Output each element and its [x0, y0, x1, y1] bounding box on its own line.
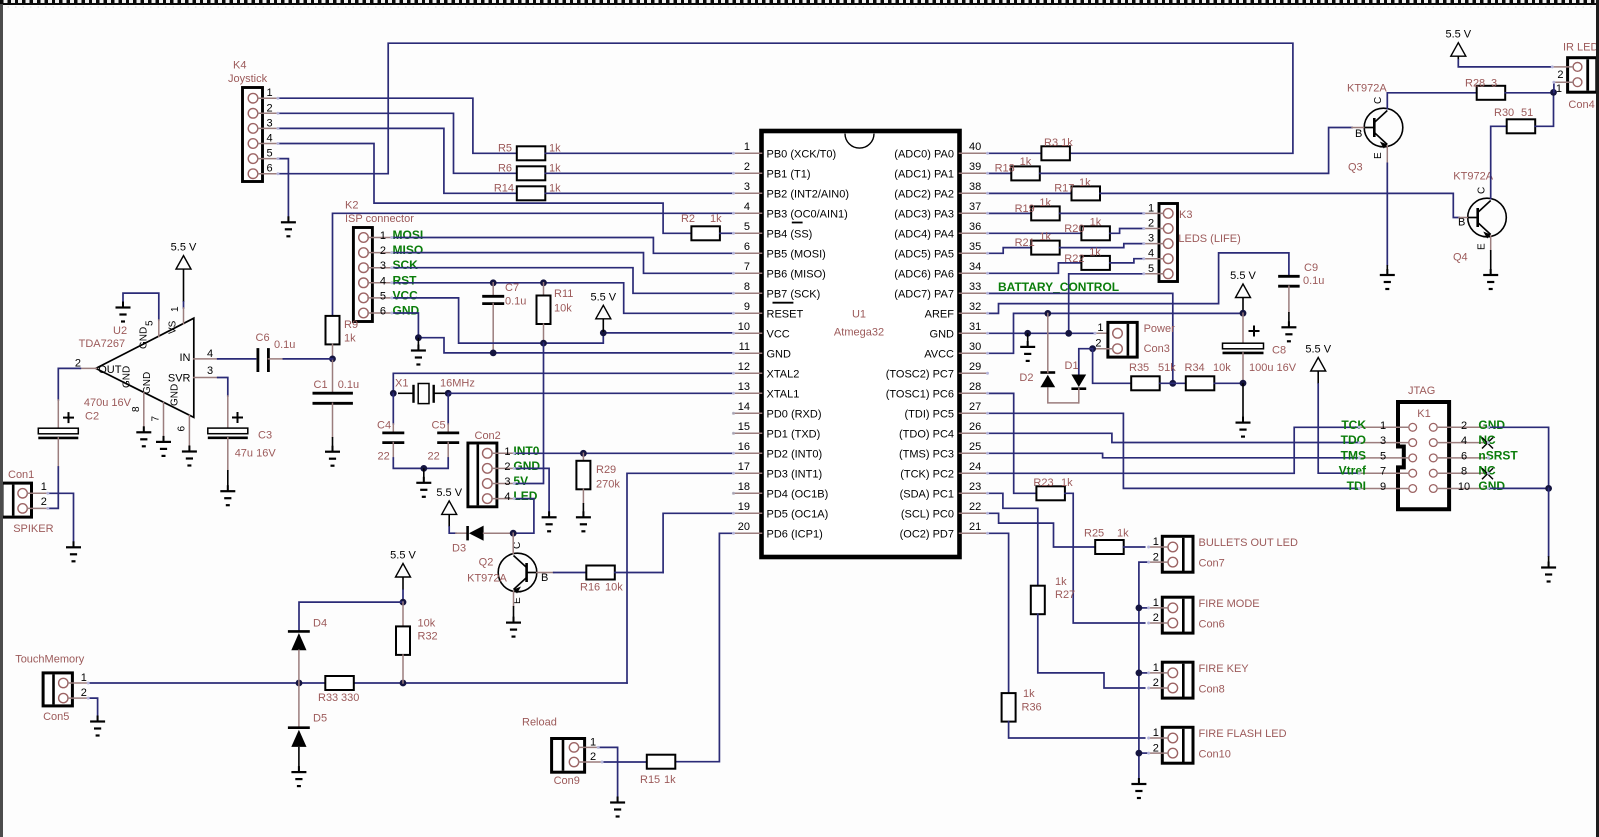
connector Con8 FIRE KEY — [1162, 662, 1193, 698]
junction Con8.1 — [1136, 670, 1143, 677]
wire R6 to U1 pin2 — [545, 172, 733, 174]
svg-text:(TOSC1) PC6: (TOSC1) PC6 — [886, 388, 954, 400]
svg-text:R20: R20 — [1064, 223, 1084, 235]
U1 pin 29 (TOSC2) PC7 — [960, 372, 988, 374]
svg-text:FIRE KEY: FIRE KEY — [1199, 663, 1250, 675]
svg-text:Con3: Con3 — [1144, 343, 1170, 355]
capacitor C8 100u 16V polarized — [1242, 313, 1244, 343]
resistor R14 — [517, 186, 546, 200]
transistor Q3 KT972A — [1364, 108, 1403, 147]
svg-text:1: 1 — [267, 87, 273, 99]
svg-text:1k: 1k — [1079, 177, 1091, 189]
svg-text:1: 1 — [380, 230, 386, 242]
svg-text:C2: C2 — [85, 411, 99, 423]
U1 pin 10 VCC — [734, 332, 762, 334]
svg-text:1: 1 — [1153, 662, 1159, 674]
svg-text:R19: R19 — [1015, 203, 1035, 215]
resistor R27 1k — [1031, 586, 1045, 615]
U1 pin 33 (ADC7) PA7 — [960, 292, 988, 294]
power 5.5V at D3 — [442, 501, 457, 515]
svg-text:29: 29 — [969, 361, 981, 373]
net endpoint ticks — [46, 65, 1555, 763]
svg-text:AREF: AREF — [925, 308, 955, 320]
svg-text:5.5 V: 5.5 V — [171, 242, 197, 254]
svg-text:Con2: Con2 — [475, 430, 501, 442]
svg-text:10k: 10k — [554, 303, 572, 315]
U1 pin 30 AVCC — [960, 352, 988, 354]
svg-text:(ADC7) PA7: (ADC7) PA7 — [894, 288, 954, 300]
svg-text:R29: R29 — [596, 464, 616, 476]
capacitor C4 22 — [382, 431, 404, 434]
svg-text:PD5 (OC1A): PD5 (OC1A) — [767, 508, 829, 520]
diode D4 — [288, 630, 310, 633]
svg-text:PD6 (ICP1): PD6 (ICP1) — [767, 528, 823, 540]
svg-text:3: 3 — [744, 181, 750, 193]
svg-text:12: 12 — [738, 361, 750, 373]
junction R29 top — [580, 450, 587, 457]
U1 pin 36 (ADC4) PA4 — [960, 232, 988, 234]
svg-text:RESET: RESET — [767, 308, 804, 320]
U1 pin 4 PB3 (OC0/AIN1) — [734, 212, 762, 214]
connector Con10 FIRE FLASH LED — [1162, 727, 1193, 763]
svg-text:1: 1 — [504, 446, 510, 458]
wire Con1.1 to ground — [48, 493, 74, 546]
resistor R30 51 — [1507, 119, 1536, 133]
resistor R28 3 — [1477, 86, 1506, 100]
svg-text:K3: K3 — [1179, 209, 1192, 221]
svg-text:9: 9 — [1380, 481, 1386, 493]
svg-text:AVCC: AVCC — [924, 348, 954, 360]
wire PC1 net pin23 to R27 — [988, 493, 1038, 585]
svg-text:7: 7 — [151, 416, 162, 422]
wire R2 to U1 pin5 — [720, 232, 734, 234]
svg-text:R32: R32 — [418, 631, 438, 643]
svg-text:nSRST: nSRST — [1478, 448, 1518, 462]
svg-text:1: 1 — [1380, 420, 1386, 432]
svg-text:1: 1 — [1153, 597, 1159, 609]
svg-text:8: 8 — [744, 281, 750, 293]
svg-text:R17: R17 — [1054, 183, 1074, 195]
svg-text:GND: GND — [122, 366, 133, 388]
svg-text:30: 30 — [969, 341, 981, 353]
svg-text:GND: GND — [1478, 479, 1505, 493]
svg-text:GND: GND — [767, 348, 792, 360]
wire AVCC net pin30 to 5.5V/C8 — [988, 313, 1244, 353]
svg-text:3: 3 — [207, 365, 213, 377]
svg-text:C7: C7 — [505, 282, 519, 294]
power 5.5V at Vtref — [1311, 358, 1326, 372]
svg-text:14: 14 — [738, 401, 750, 413]
wire TouchMemory net — [88, 682, 299, 684]
svg-text:1k: 1k — [1061, 477, 1073, 489]
wire Q4 collector to R30 — [1491, 126, 1507, 198]
wire K4.6 top net to R3 right — [278, 43, 1293, 174]
wire PA1 to R18 — [988, 172, 1012, 174]
svg-text:(ADC1) PA1: (ADC1) PA1 — [894, 168, 954, 180]
svg-text:2: 2 — [380, 245, 386, 257]
wire X1 right to C5 — [447, 393, 449, 424]
wire TCK net pin24 to K1 — [988, 427, 1360, 473]
junction gnd stub — [1024, 330, 1031, 337]
wire Con2.2 GND to ground — [514, 468, 549, 516]
crystal X1 16MHz — [398, 392, 414, 394]
resistor R19 — [1031, 206, 1060, 220]
svg-text:470u 16V: 470u 16V — [84, 397, 132, 409]
wire R18 to Q3 base — [1040, 128, 1352, 174]
svg-text:Con7: Con7 — [1199, 558, 1225, 570]
wire Q4 base — [1459, 217, 1468, 219]
U1 pin 12 XTAL2 — [734, 372, 762, 374]
wire Q3 emitter to ground — [1386, 146, 1388, 163]
svg-text:Con6: Con6 — [1199, 619, 1225, 631]
resistor R21 — [1031, 241, 1060, 255]
junction R11/VCC — [540, 340, 547, 347]
svg-text:25: 25 — [969, 441, 981, 453]
ground at K4.5 — [281, 216, 296, 236]
junction R11 top on RST — [540, 279, 547, 286]
svg-text:40: 40 — [969, 141, 981, 153]
svg-text:FIRE MODE: FIRE MODE — [1199, 598, 1260, 610]
U1 pin 3 PB2 (INT2/AIN0) — [734, 192, 762, 194]
svg-text:10k: 10k — [418, 618, 436, 630]
capacitor C6 — [256, 348, 259, 372]
svg-text:8: 8 — [131, 406, 142, 412]
overline RESET — [773, 302, 794, 304]
svg-text:5.5 V: 5.5 V — [590, 291, 616, 303]
svg-text:ISP connector: ISP connector — [345, 213, 414, 225]
svg-text:22: 22 — [378, 451, 390, 463]
svg-text:D3: D3 — [452, 543, 466, 555]
svg-text:(TDI) PC5: (TDI) PC5 — [905, 408, 955, 420]
ground at C1 — [332, 437, 334, 451]
U1 pin 9 RESET — [734, 312, 762, 314]
svg-text:R9: R9 — [344, 319, 358, 331]
wire R5 to U1 pin1 — [545, 152, 733, 154]
svg-text:10: 10 — [738, 321, 750, 333]
junction 5.5V/R32/D4 — [400, 599, 407, 606]
svg-text:TDO: TDO — [1341, 433, 1366, 447]
svg-text:(TOSC2) PC7: (TOSC2) PC7 — [886, 368, 954, 380]
svg-text:IN: IN — [180, 352, 191, 364]
svg-text:GND: GND — [170, 384, 181, 406]
U1 pin 5 PB4 (SS) — [734, 232, 762, 234]
wire R28 to Con4.1 — [1505, 92, 1553, 94]
wire D1 to D2 — [1078, 389, 1080, 403]
svg-text:Con9: Con9 — [554, 775, 580, 787]
svg-text:D1: D1 — [1065, 360, 1079, 372]
svg-text:XTAL2: XTAL2 — [767, 368, 800, 380]
junction Con6.1 — [1136, 605, 1143, 612]
junction R32 node — [400, 680, 407, 687]
wire Con5.2 to ground — [88, 698, 97, 719]
wire PD5 net U1 pin19 — [663, 513, 733, 572]
junction K2 GND — [415, 334, 422, 341]
wire Con3.2 to D1 — [1079, 349, 1093, 375]
svg-text:2: 2 — [1557, 69, 1563, 81]
svg-text:(ADC3) PA3: (ADC3) PA3 — [894, 208, 954, 220]
svg-text:4: 4 — [1148, 248, 1154, 260]
wire R22 to K3.4 — [1110, 259, 1144, 263]
svg-text:C1: C1 — [314, 379, 328, 391]
svg-text:5: 5 — [267, 148, 273, 160]
svg-text:TDA7267: TDA7267 — [79, 338, 125, 350]
wire R27 to Con8.2 — [1038, 614, 1145, 688]
junction D2 top — [1044, 310, 1051, 317]
junction R35/R34/BATTARY — [1169, 380, 1176, 387]
svg-text:PB0 (XCK/T0): PB0 (XCK/T0) — [767, 148, 837, 160]
wire Con9.2 to R15 — [602, 761, 647, 763]
svg-text:C: C — [1373, 97, 1384, 104]
svg-text:E: E — [1373, 152, 1384, 159]
svg-text:5.5 V: 5.5 V — [436, 487, 462, 499]
wire INT0 net to U1 pin16 — [514, 452, 733, 454]
U1 pin 11 GND — [734, 352, 762, 354]
U1 pin 22 (SCL) PC0 — [960, 512, 988, 514]
svg-text:16MHz: 16MHz — [440, 378, 475, 390]
junction Q2 collector node — [510, 530, 517, 537]
op-amp U1 Atmega32 IC body — [762, 131, 960, 557]
wire R30 to Con4.1 node — [1535, 92, 1553, 126]
svg-text:22: 22 — [428, 451, 440, 463]
wire R34 to C8 bottom — [1214, 382, 1243, 384]
svg-text:INT0: INT0 — [513, 444, 539, 458]
svg-text:3: 3 — [1380, 435, 1386, 447]
junction 5.5V/C8/AVCC — [1240, 310, 1247, 317]
svg-text:(SCL) PC0: (SCL) PC0 — [901, 508, 954, 520]
resistor R20 — [1081, 226, 1110, 240]
wire TMS net pin25 to K1 — [988, 453, 1360, 458]
wire R25 to Con7.1 — [1124, 546, 1145, 548]
svg-text:15: 15 — [738, 421, 750, 433]
svg-text:KT972A: KT972A — [1347, 83, 1387, 95]
wire PC6 net pin28 to R23 — [988, 393, 1037, 493]
svg-text:2: 2 — [1153, 742, 1159, 754]
U1 pin 18 PD4 (OC1B) — [734, 492, 762, 494]
svg-text:PD0 (RXD): PD0 (RXD) — [767, 408, 822, 420]
power 5.5V at C8 — [1236, 284, 1251, 298]
svg-text:2: 2 — [1153, 677, 1159, 689]
wire R19 to K3.1 — [1060, 212, 1144, 214]
svg-text:1k: 1k — [1090, 217, 1102, 229]
wire PD6 net U1 pin20 to R15 — [676, 533, 734, 761]
svg-text:Q2: Q2 — [479, 557, 494, 569]
wire R17 to Q4 base — [1100, 193, 1459, 217]
wire R16 to PD5 net — [615, 572, 663, 574]
svg-text:BULLETS OUT LED: BULLETS OUT LED — [1199, 537, 1298, 549]
svg-text:C6: C6 — [256, 332, 270, 344]
svg-text:Con1: Con1 — [8, 469, 34, 481]
ground at C3 — [227, 470, 229, 490]
svg-text:SCK: SCK — [393, 258, 419, 272]
svg-text:R22: R22 — [1064, 253, 1084, 265]
connector K3 LEDS (LIFE) — [1159, 204, 1178, 282]
svg-text:JTAG: JTAG — [1408, 385, 1435, 397]
svg-text:(SDA) PC1: (SDA) PC1 — [900, 488, 954, 500]
svg-text:Con4: Con4 — [1568, 99, 1594, 111]
svg-text:31: 31 — [969, 321, 981, 333]
U1 pin 25 (TMS) PC3 — [960, 452, 988, 454]
wire C4/C5 to ground — [393, 458, 448, 468]
U2 pin7 GND stub and ground — [163, 403, 165, 441]
svg-text:R33: R33 — [318, 692, 338, 704]
svg-text:PB7 (SCK): PB7 (SCK) — [767, 288, 821, 300]
U1 pin 40 (ADC0) PA0 — [960, 152, 988, 154]
U1 pin 2 PB1 (T1) — [734, 172, 762, 174]
svg-text:2: 2 — [1095, 338, 1101, 350]
svg-text:(TDO) PC4: (TDO) PC4 — [899, 428, 954, 440]
svg-text:Q4: Q4 — [1453, 252, 1468, 264]
svg-text:(ADC2) PA2: (ADC2) PA2 — [894, 188, 954, 200]
resistor R35 51k — [1131, 376, 1160, 390]
svg-text:X1: X1 — [395, 378, 408, 390]
wire K4.3 to R14 — [278, 128, 517, 193]
svg-text:4: 4 — [1461, 435, 1467, 447]
wire Q3 base — [1352, 127, 1364, 129]
svg-text:35: 35 — [969, 241, 981, 253]
wire PA4 to R20 — [988, 232, 1082, 234]
svg-text:26: 26 — [969, 421, 981, 433]
wire Vtref — [1318, 384, 1359, 473]
svg-text:34: 34 — [969, 261, 981, 273]
svg-text:0.1u: 0.1u — [505, 296, 526, 308]
wire common GND rail of Con7/6/8/10 — [1139, 562, 1149, 783]
svg-text:4: 4 — [267, 133, 273, 145]
svg-text:23: 23 — [969, 481, 981, 493]
resistor R34 10k — [1186, 376, 1215, 390]
svg-text:0.1u: 0.1u — [1303, 275, 1324, 287]
wire PA5 to R21 — [988, 248, 1032, 254]
svg-text:1: 1 — [170, 306, 181, 312]
resistor R11 — [543, 283, 545, 296]
svg-text:(OC2) PD7: (OC2) PD7 — [900, 528, 954, 540]
U1 pin 14 PD0 (RXD) — [734, 412, 762, 414]
svg-text:PB3 (OC0/AIN1): PB3 (OC0/AIN1) — [767, 208, 848, 220]
NC cross pin8 — [1482, 468, 1493, 479]
svg-text:OUT: OUT — [98, 364, 122, 376]
svg-text:10k: 10k — [1213, 362, 1231, 374]
svg-text:R34: R34 — [1185, 362, 1205, 374]
U1 pin 6 PB5 (MOSI) — [734, 252, 762, 254]
svg-text:6: 6 — [380, 306, 386, 318]
svg-text:FIRE FLASH LED: FIRE FLASH LED — [1199, 728, 1287, 740]
wire R14 to U1 pin3 — [545, 192, 733, 194]
svg-text:R18: R18 — [995, 163, 1015, 175]
svg-text:17: 17 — [738, 461, 750, 473]
svg-text:5: 5 — [1380, 450, 1386, 462]
svg-text:MOSI: MOSI — [393, 228, 424, 242]
junction C7 top on RST — [490, 279, 497, 286]
svg-text:1k: 1k — [1117, 528, 1129, 540]
svg-text:TCK: TCK — [1341, 418, 1366, 432]
U1 pin 27 (TDI) PC5 — [960, 412, 988, 414]
svg-text:10k: 10k — [605, 582, 623, 594]
svg-text:R35: R35 — [1129, 362, 1149, 374]
svg-text:D4: D4 — [313, 618, 327, 630]
resistor R33 330 — [325, 676, 354, 690]
wire C6 to amp IN node — [268, 358, 283, 360]
svg-text:38: 38 — [969, 181, 981, 193]
svg-text:PD3 (INT1): PD3 (INT1) — [767, 468, 823, 480]
U2 pin5 GND wire and ground — [123, 293, 159, 320]
svg-text:R15: R15 — [640, 774, 660, 786]
wire RST net to U1 pin9 RESET — [392, 283, 734, 314]
U1 pin 38 (ADC2) PA2 — [960, 192, 988, 194]
svg-text:Vtref: Vtref — [1339, 464, 1367, 478]
svg-text:(TMS) PC3: (TMS) PC3 — [899, 448, 954, 460]
junction 5.5V/VCC — [600, 330, 607, 337]
connector Con6 FIRE MODE — [1162, 597, 1193, 633]
junction X1 left — [390, 390, 397, 397]
svg-text:5.5 V: 5.5 V — [390, 550, 416, 562]
svg-text:XTAL1: XTAL1 — [767, 388, 800, 400]
resistor R6 — [517, 166, 546, 180]
connector Con7 BULLETS OUT LED — [1162, 536, 1193, 572]
svg-text:GND: GND — [513, 459, 540, 473]
svg-text:R11: R11 — [554, 288, 573, 300]
U1 pin 26 (TDO) PC4 — [960, 432, 988, 434]
svg-text:10: 10 — [1458, 481, 1470, 493]
svg-text:1: 1 — [1148, 202, 1154, 214]
svg-text:32: 32 — [969, 301, 981, 313]
wire PD3/INT1 net U1 pin17 to TouchMemory — [627, 473, 734, 683]
svg-text:Reload: Reload — [522, 717, 557, 729]
wire R11 bottom to VCC rail — [543, 324, 545, 343]
svg-text:B: B — [541, 572, 548, 584]
overline SS on PB4 — [792, 222, 803, 224]
svg-text:PB1 (T1): PB1 (T1) — [767, 168, 811, 180]
U2 pin8 GND stub and ground — [143, 393, 145, 432]
wire D4 top rail — [299, 602, 403, 631]
svg-text:R3 1k: R3 1k — [1044, 137, 1073, 149]
svg-text:LEDS (LIFE): LEDS (LIFE) — [1178, 233, 1240, 245]
junction Con4.1 node — [1550, 89, 1557, 96]
svg-text:1: 1 — [744, 141, 750, 153]
svg-text:GND: GND — [1478, 418, 1505, 432]
U1 pin 21 (OC2) PD7 — [960, 532, 988, 534]
junction Con3.2 node — [1089, 345, 1096, 352]
svg-text:5V: 5V — [513, 474, 528, 488]
junction C7 bottom on GND — [490, 350, 497, 357]
svg-text:R2: R2 — [681, 213, 695, 225]
svg-text:1k: 1k — [1020, 156, 1032, 168]
svg-text:C3: C3 — [258, 430, 272, 442]
U1 pin 24 (TCK) PC2 — [960, 472, 988, 474]
junction Con10.2 — [1136, 750, 1143, 757]
svg-text:Power: Power — [1144, 323, 1176, 335]
resistor R2 — [691, 226, 720, 240]
svg-text:2: 2 — [1461, 420, 1467, 432]
wire Con2.3 5V to VCC rail — [514, 343, 543, 483]
wire K4.5 to ground — [278, 159, 289, 221]
svg-text:C4: C4 — [377, 420, 391, 432]
svg-text:SVR: SVR — [168, 373, 191, 385]
svg-text:Atmega32: Atmega32 — [834, 327, 884, 339]
svg-text:5: 5 — [1148, 263, 1154, 275]
wire Con2.4 LED to Q2 collector node — [513, 499, 534, 534]
svg-text:K2: K2 — [345, 200, 358, 212]
wire BATTARY_CONTROL net pin33 to R35/R34 — [988, 293, 1173, 383]
svg-text:5.5 V: 5.5 V — [1445, 29, 1471, 41]
wire 5.5V to Con4.2 — [1458, 60, 1552, 67]
wire PD7 net pin21 to R36 — [988, 533, 1009, 693]
svg-text:9: 9 — [744, 301, 750, 313]
wire K1 GND pins to ground — [1488, 427, 1548, 488]
svg-text:2: 2 — [1153, 612, 1159, 624]
svg-text:Q3: Q3 — [1348, 162, 1363, 174]
U2 pin6 GND stub and ground — [188, 416, 190, 451]
wire PA2 to R17 — [988, 192, 1072, 194]
svg-text:16: 16 — [738, 441, 750, 453]
